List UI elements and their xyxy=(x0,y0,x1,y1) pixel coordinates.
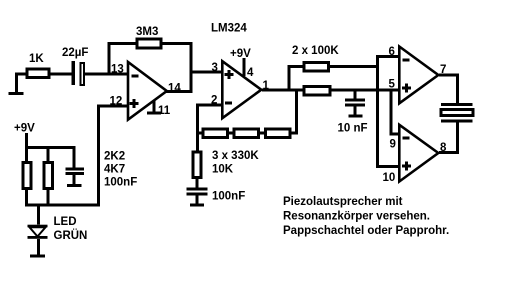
wire rail to LED xyxy=(37,207,40,225)
svg-text:22µF: 22µF xyxy=(62,47,88,59)
svg-text:2 x 100K: 2 x 100K xyxy=(292,45,339,57)
wire op3 output 7 xyxy=(439,74,459,77)
ground LED xyxy=(30,255,45,258)
wire +9V down xyxy=(25,133,28,149)
wire 10K to 100nF xyxy=(196,179,199,189)
wire R100K upper to vertical xyxy=(330,65,379,68)
resistor 330K a xyxy=(201,128,229,140)
wire pin 2 xyxy=(196,104,223,107)
wire op4 output 8 xyxy=(439,151,459,154)
wire feedback top left xyxy=(108,42,136,45)
wire vertical pin6/pin10 bus xyxy=(376,55,379,168)
LED anode bar xyxy=(28,225,48,228)
wire output down-branch vertical xyxy=(295,89,298,135)
wire rail to 100nF left xyxy=(73,146,76,168)
svg-text:Piezolautsprecher mit: Piezolautsprecher mit xyxy=(283,196,403,208)
wire feedback left vertical xyxy=(108,42,111,74)
plus symbol U1A xyxy=(130,102,139,105)
ground pin 11 xyxy=(153,100,156,112)
svg-text:2K2: 2K2 xyxy=(104,151,125,163)
note text block xyxy=(283,196,449,237)
wire piezo bottom lead xyxy=(456,122,459,154)
svg-text:4K7: 4K7 xyxy=(104,164,125,176)
svg-text:Pappschachtel oder Papprohr.: Pappschachtel oder Papprohr. xyxy=(283,225,449,237)
wire pin2 down to 10K xyxy=(196,104,199,152)
minus symbol U1D xyxy=(403,137,410,140)
svg-text:1K: 1K xyxy=(29,53,44,65)
wire R100K lower to pin 5 xyxy=(331,89,399,92)
resistor 2K2 xyxy=(21,161,32,190)
wire LED cathode xyxy=(37,239,40,256)
wire top rail xyxy=(25,146,76,149)
plus symbol U1B xyxy=(225,73,234,76)
resistor 330K c xyxy=(264,128,292,140)
wire pin12 down to bottom rail xyxy=(97,105,100,207)
svg-text:10: 10 xyxy=(383,172,396,184)
plus symbol U1C xyxy=(402,87,411,90)
svg-text:+9V: +9V xyxy=(14,123,35,135)
wire op1 output xyxy=(166,90,193,93)
resistor 10K xyxy=(191,151,202,180)
LED D1 xyxy=(28,216,88,242)
svg-text:4: 4 xyxy=(247,67,254,79)
op-amp U1C (pins 6,5 -> 7) xyxy=(399,47,438,104)
svg-text:GRÜN: GRÜN xyxy=(54,229,88,242)
svg-text:10K: 10K xyxy=(212,164,234,176)
wire piezo top lead xyxy=(456,74,459,104)
wire 330K b-c xyxy=(260,132,264,135)
capacitor 10nF lead top xyxy=(354,89,357,101)
svg-text:LM324: LM324 xyxy=(211,23,247,35)
resistor 1K xyxy=(26,68,51,80)
wire rail to 4K7 xyxy=(47,146,50,161)
wire 330K c to output branch xyxy=(291,132,298,135)
ground (input left) xyxy=(15,73,18,93)
svg-text:13: 13 xyxy=(111,64,124,76)
svg-text:100nF: 100nF xyxy=(104,177,137,189)
wire pin 6 xyxy=(376,55,400,58)
wire pin 9 vertical xyxy=(390,89,393,136)
wire pin 12 xyxy=(97,105,129,108)
svg-text:Resonanzkörper versehen.: Resonanzkörper versehen. xyxy=(283,211,430,223)
wire ground to R 1K xyxy=(15,73,26,76)
wire feedback right vertical to output xyxy=(190,42,193,93)
LED triangle xyxy=(30,227,46,236)
capacitor 10nF xyxy=(345,99,365,102)
wire 330K a-b xyxy=(229,132,233,135)
wire 2K2 to bottom rail xyxy=(25,190,28,206)
wire +9V to pin 4 xyxy=(243,58,246,76)
capacitor 100nF (mid) xyxy=(186,188,207,191)
svg-text:5: 5 xyxy=(389,79,396,91)
plus symbol U1D xyxy=(402,165,411,168)
capacitor 100nF (left) xyxy=(66,168,85,171)
wire pin 10 xyxy=(376,165,400,168)
wire feedback top right xyxy=(163,42,193,45)
svg-text:6: 6 xyxy=(389,46,395,58)
wire rail to 2K2 xyxy=(25,146,28,161)
svg-text:+9V: +9V xyxy=(230,48,251,60)
wire output up-branch vertical xyxy=(288,65,291,90)
resistor 100K lower xyxy=(303,85,332,97)
minus symbol U1C xyxy=(403,59,410,62)
minus symbol U1A xyxy=(132,75,139,78)
svg-text:9: 9 xyxy=(390,139,396,151)
wire up-branch to R100K upper xyxy=(288,65,303,68)
piezo speaker xyxy=(441,103,473,106)
LED cathode bar xyxy=(28,236,48,239)
resistor 330K b xyxy=(233,128,261,140)
wire 330K chain left xyxy=(196,132,201,135)
op-amp U1A (pins 13,12,14,11) xyxy=(128,62,167,120)
svg-text:11: 11 xyxy=(158,105,171,117)
wire 4K7 to bottom rail xyxy=(47,190,50,206)
svg-text:LED: LED xyxy=(54,216,77,228)
wire bottom rail xyxy=(25,204,100,207)
resistor 4K7 xyxy=(43,161,54,190)
wire R 1K to C 22uF xyxy=(51,73,73,76)
svg-text:100nF: 100nF xyxy=(212,191,245,203)
resistor 100K upper xyxy=(303,61,331,73)
op-amp U1B (pins 3,2,4 -> 1) xyxy=(222,61,261,118)
svg-text:14: 14 xyxy=(168,83,181,95)
wire op2 output xyxy=(262,89,304,92)
resistor 3M3 xyxy=(136,38,163,50)
wire pin 9 xyxy=(390,133,401,136)
svg-text:3 x 330K: 3 x 330K xyxy=(212,150,259,162)
op-amp U1D (pins 9,10 -> 8) xyxy=(399,125,438,182)
svg-text:10 nF: 10 nF xyxy=(338,123,368,135)
svg-text:3M3: 3M3 xyxy=(136,26,158,38)
capacitor C 22uF xyxy=(72,61,76,85)
svg-text:3: 3 xyxy=(212,62,218,74)
minus symbol U1B xyxy=(225,102,232,105)
wire C 22uF to pin 13 xyxy=(85,73,128,76)
wire op1 output to pin 3 xyxy=(190,71,223,74)
